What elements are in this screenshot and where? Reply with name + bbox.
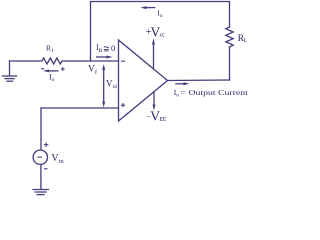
svg-text:0: 0 <box>111 43 115 53</box>
svg-text:Vin: Vin <box>51 153 64 165</box>
svg-text:Io: Io <box>157 9 163 19</box>
svg-text:IB: IB <box>96 43 103 54</box>
svg-text:R1: R1 <box>46 44 54 55</box>
svg-text:−VEE: −VEE <box>146 108 166 123</box>
svg-text:Vf: Vf <box>88 65 98 77</box>
svg-text:RL: RL <box>238 34 248 44</box>
svg-text:= Output Current: = Output Current <box>181 88 249 97</box>
svg-text:+Vcc: +Vcc <box>146 24 165 39</box>
svg-text:Io: Io <box>49 73 55 83</box>
svg-text:Io: Io <box>174 88 180 99</box>
svg-text:Vid: Vid <box>106 78 117 90</box>
